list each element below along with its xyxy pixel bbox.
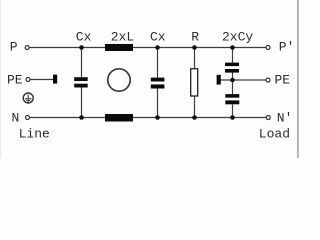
svg-text:PE: PE	[275, 73, 291, 88]
svg-text:P: P	[10, 40, 18, 55]
svg-text:PE: PE	[7, 73, 23, 88]
svg-text:Line: Line	[19, 127, 50, 142]
svg-text:N': N'	[277, 111, 293, 126]
svg-text:Cx: Cx	[76, 30, 92, 45]
svg-text:2xCy: 2xCy	[222, 30, 253, 45]
svg-text:2xL: 2xL	[111, 30, 134, 45]
svg-text:Load: Load	[259, 127, 290, 142]
svg-text:N: N	[12, 111, 20, 126]
svg-text:R: R	[191, 30, 199, 45]
svg-text:P': P'	[279, 40, 295, 55]
svg-text:Cx: Cx	[150, 30, 166, 45]
